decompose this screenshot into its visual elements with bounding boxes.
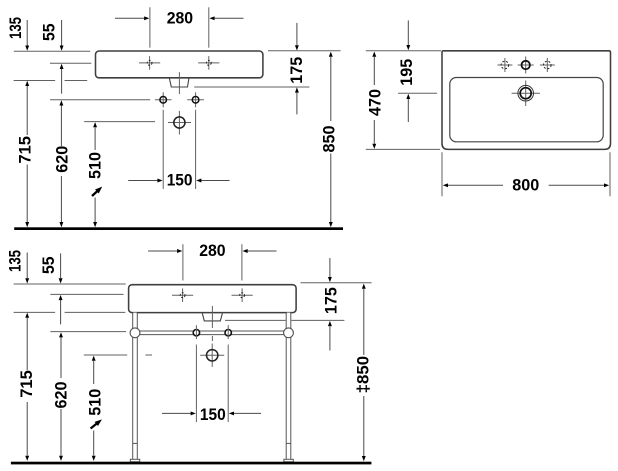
svg-text:715: 715 (17, 136, 35, 164)
dimension 470 bottom arrow (372, 144, 376, 149)
plan left optional faucet hole (498, 64, 513, 66)
plan drain inner circle (520, 88, 531, 99)
right leg ball joint (284, 328, 294, 338)
right rail fixing hole (225, 330, 231, 336)
console dimension 280 left arrow (177, 249, 182, 253)
console dimension 510 floor arrow (92, 456, 96, 461)
right faucet hole symbol (198, 62, 219, 64)
console dimension 55 lower arrow (59, 295, 63, 300)
left foot base plate (130, 459, 139, 462)
dimension 195 lower arrow (406, 94, 410, 99)
console dimension 280 left extension line (182, 244, 184, 280)
right foot base plate (284, 459, 293, 462)
left foot joint (133, 442, 138, 444)
rim-top right reference line (268, 50, 341, 52)
dimension 55 lower arrow (60, 64, 64, 69)
dimension 135 arrow (25, 46, 29, 51)
dimension 470 top arrow (372, 52, 376, 57)
svg-text:‡850: ‡850 (355, 356, 373, 394)
svg-text:150: 150 (167, 172, 193, 190)
console right faucet hole symbol (232, 294, 253, 296)
console dimension 150 left arrow (191, 411, 196, 415)
plan drain outer circle (518, 85, 534, 101)
dimension 55 upper arrow (60, 46, 64, 51)
dimension 150 right extension line (195, 110, 197, 189)
svg-text:195: 195 (398, 59, 416, 86)
plan right optional faucet hole (540, 64, 555, 66)
svg-text:510: 510 (87, 389, 105, 416)
svg-text:175: 175 (323, 287, 341, 314)
dimension 800 left arrow (443, 183, 448, 187)
floor line console view (11, 462, 372, 465)
console dimension 850 top arrow (362, 284, 366, 289)
svg-text:620: 620 (54, 146, 72, 173)
basin body outline (96, 51, 263, 78)
dimension 280 left extension line (149, 7, 151, 47)
dimension 850 floor arrow (329, 222, 333, 227)
svg-text:850: 850 (320, 126, 338, 153)
washbasin front view: drain-height reference line (84, 121, 155, 123)
svg-text:55: 55 (41, 23, 59, 41)
console dimension 150 right extension line (227, 345, 229, 423)
left faucet hole symbol (139, 62, 160, 64)
dimension 800 left extension line (441, 152, 443, 196)
console centre dash (211, 336, 213, 341)
console dimension 510 upper arrow (92, 356, 96, 361)
svg-text:135: 135 (7, 17, 25, 39)
console dimension 280 right extension line (241, 244, 243, 280)
console dimension 135 arrow (25, 278, 29, 283)
dimension 620 upper arrow (59, 100, 63, 105)
dimension 510 floor arrow (93, 222, 97, 227)
floor line left view (14, 227, 343, 230)
dimension 280 left arrow (144, 16, 149, 20)
dimension 800 right arrow (604, 183, 609, 187)
left leg ball joint (130, 328, 140, 338)
console dimension 150 left extension line (195, 345, 197, 423)
console dimension 175 upper arrow (328, 277, 332, 282)
svg-text:510: 510 (86, 152, 104, 179)
console view 55 lower reference line (50, 293, 123, 295)
dimension 715 line and floor arrow (25, 222, 29, 227)
left rail fixing hole (193, 330, 199, 336)
dimension 150 right arrow (196, 179, 201, 183)
dimension 195 upper arrow (406, 45, 410, 50)
washbasin front view: rim-top reference line (14, 50, 90, 52)
svg-text:135: 135 (7, 250, 25, 272)
console drain circle cross (211, 344, 213, 367)
console 510 adjustable-height arrow (91, 423, 97, 428)
svg-text:620: 620 (53, 382, 71, 409)
dimension 175 lower arrow (295, 87, 299, 92)
dimension 510 upper arrow (93, 122, 97, 127)
svg-text:175: 175 (288, 57, 306, 84)
console dimension 55 upper arrow (59, 278, 63, 283)
dimension 150 left extension line (162, 110, 164, 189)
plan drain cross (525, 81, 527, 107)
svg-text:55: 55 (40, 256, 58, 274)
console dimension 620 upper arrow (59, 332, 63, 337)
drain centre line (178, 72, 180, 94)
svg-text:280: 280 (199, 242, 225, 260)
dimension 800 right extension line (609, 152, 611, 196)
dimension 150 left arrow (157, 179, 162, 183)
svg-text:715: 715 (18, 370, 36, 398)
510 adjustable-height arrow (92, 191, 98, 196)
console dimension 850 floor arrow (362, 456, 366, 461)
console drain centre line (211, 306, 213, 328)
console drain circle (207, 350, 218, 361)
console dimension 715 floor arrow (25, 456, 29, 461)
console view rim-top reference line (14, 283, 126, 285)
console view 135 lower reference line (14, 311, 56, 313)
console drain housing trapezoid (202, 313, 222, 321)
washbasin front view: fixing-hole reference line (50, 99, 150, 101)
console view rail reference line (50, 331, 126, 333)
svg-text:800: 800 (512, 177, 539, 195)
right console leg (287, 313, 291, 460)
svg-text:470: 470 (367, 89, 385, 116)
console dimension 175 lower arrow (328, 321, 332, 326)
175 lower reference line (194, 86, 309, 88)
plan front-edge reference line (366, 148, 440, 150)
console dimension 280 right arrow (243, 249, 248, 253)
plan rim-top reference line (366, 50, 441, 52)
washbasin front view: 135 lower reference line (14, 80, 56, 82)
dimension 280 right extension line (208, 7, 210, 47)
dimension 850 top arrow (329, 52, 333, 57)
console dimension 715 upper arrow (25, 313, 29, 318)
dimension 715 upper arrow (25, 81, 29, 86)
towel rail (140, 330, 284, 332)
left fixing hole (162, 92, 164, 107)
svg-text:280: 280 (167, 9, 193, 27)
dimension 620 floor arrow (59, 222, 63, 227)
dimension 175 upper arrow (295, 45, 299, 50)
console left faucet hole symbol (172, 294, 193, 296)
plan basin outer outline (442, 51, 611, 150)
svg-text:150: 150 (200, 406, 226, 424)
left console leg (133, 313, 137, 460)
right foot joint (286, 442, 291, 444)
console dimension 620 floor arrow (59, 456, 63, 461)
plan basin inner bowl outline (450, 78, 603, 142)
drain-axis reference line (398, 92, 437, 94)
right fixing hole (195, 92, 197, 107)
console view drain-height reference line (84, 354, 127, 356)
console 175 lower reference line (225, 319, 286, 321)
overflow drain circle (174, 117, 185, 128)
console rim-top right reference line (301, 282, 372, 284)
console dimension 150 right arrow (229, 411, 234, 415)
plan middle faucet hole (525, 57, 527, 74)
drain housing trapezoid (169, 78, 189, 87)
washbasin front view: 55 lower reference line (50, 62, 91, 64)
dimension 280 right arrow (209, 16, 214, 20)
console basin body outline (129, 285, 297, 313)
overflow drain circle cross (178, 111, 180, 135)
